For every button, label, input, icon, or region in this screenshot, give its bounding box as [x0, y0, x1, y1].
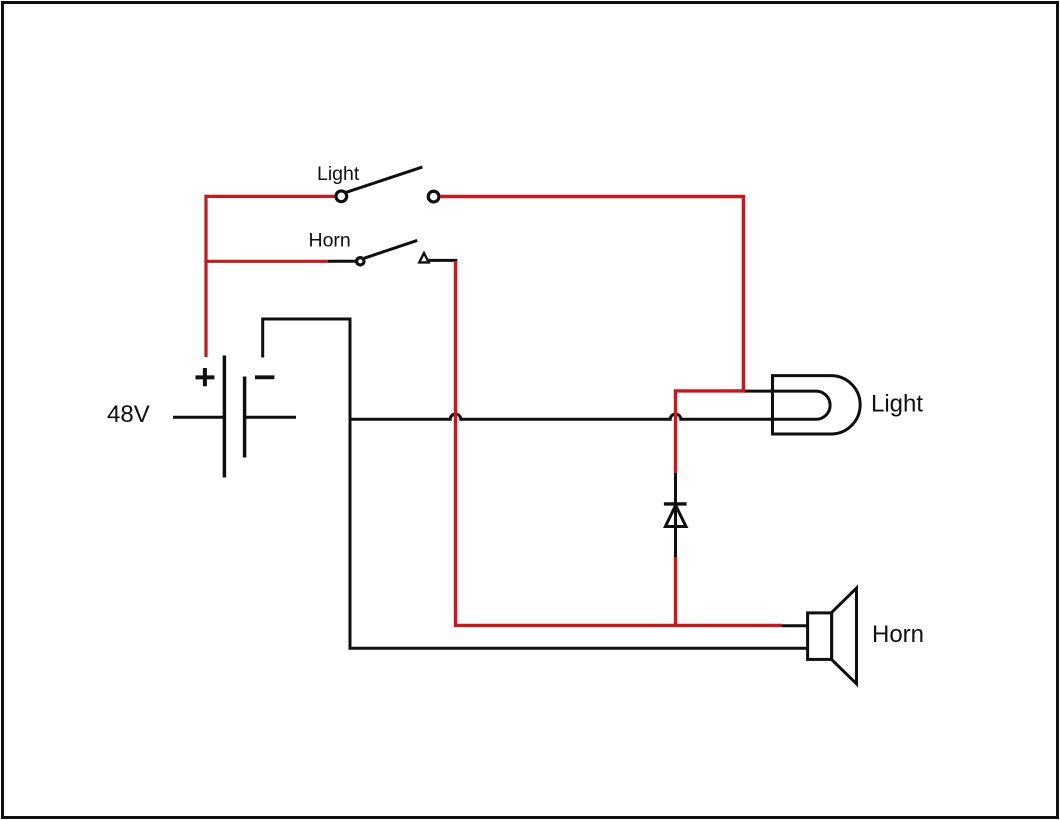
battery: minus sign	[255, 375, 274, 379]
battery: left lead stub	[173, 416, 223, 419]
battery: negative short plate	[243, 377, 247, 458]
switch (Horn): right contact triangle	[419, 253, 428, 262]
svg-text:Horn: Horn	[872, 621, 924, 648]
switch (Light): right contact circle	[428, 191, 439, 202]
svg-text:48V: 48V	[107, 401, 150, 428]
wire: battery positive to light switch (red, horizontal y=196)	[206, 195, 335, 198]
wire: battery negative up, across and down (black) to horn return	[263, 319, 808, 648]
wire: horn switch output lead (black)	[429, 259, 458, 262]
wire: branch to horn switch (red, horizontal y=261)	[204, 260, 328, 263]
diode D1: body vertical lead (black)	[674, 473, 677, 557]
lamp (Light): outer bulb shell	[773, 376, 861, 434]
svg-text:Horn: Horn	[309, 230, 351, 252]
svg-text:Light: Light	[871, 391, 923, 418]
wire: main black bus y=419.3 with hops over red wires, into lamp loop and back	[350, 391, 830, 419]
battery: plus sign	[196, 368, 215, 386]
wire: short black lead into horn switch	[328, 260, 357, 263]
switch (Horn): blade arm	[364, 240, 417, 258]
diode D1: cathode bar	[664, 502, 687, 505]
wire: light switch to lamp feed (red), right then down then left then down to diode	[440, 197, 743, 474]
battery: right lead stub	[246, 416, 296, 419]
switch (Horn): left contact circle	[357, 258, 364, 265]
switch (Light): blade arm	[346, 167, 423, 192]
wire: battery positive riser (red, vertical x=206)	[204, 195, 207, 357]
wire: horn switch down to horn feed (red, vertical x=455.5)	[456, 261, 783, 626]
battery: positive long plate	[223, 356, 227, 478]
speaker (Horn): driver rectangle	[808, 613, 832, 660]
switch (Light): left contact circle	[336, 191, 347, 202]
wire: diode cathode down to horn feed (red, vertical x=675.5)	[674, 557, 677, 627]
speaker (Horn): cone trapezoid	[832, 588, 857, 684]
wire: short black lead into speaker top terminal	[782, 624, 808, 627]
diode D1: anode triangle	[665, 505, 686, 526]
svg-text:Light: Light	[317, 163, 360, 185]
